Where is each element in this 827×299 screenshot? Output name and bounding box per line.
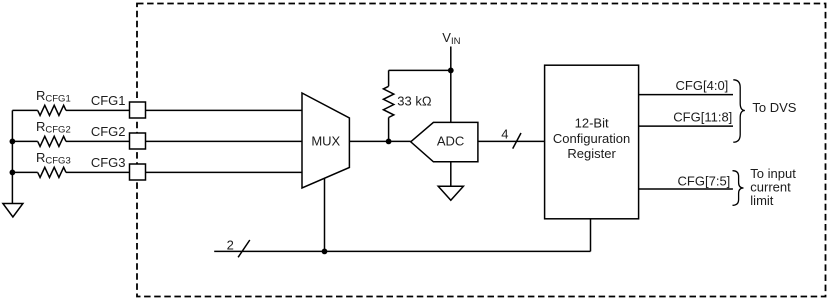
svg-text:MUX: MUX xyxy=(311,133,340,148)
svg-text:RCFG1: RCFG1 xyxy=(36,88,71,105)
svg-text:To DVS: To DVS xyxy=(752,100,796,115)
svg-text:CFG3: CFG3 xyxy=(91,155,126,170)
svg-text:ADC: ADC xyxy=(437,134,464,149)
svg-text:CFG[7:5]: CFG[7:5] xyxy=(678,173,731,188)
svg-text:Configuration: Configuration xyxy=(553,131,630,146)
svg-text:Register: Register xyxy=(567,146,616,161)
svg-text:VIN: VIN xyxy=(442,30,460,47)
svg-text:CFG1: CFG1 xyxy=(91,93,126,108)
svg-text:RCFG2: RCFG2 xyxy=(36,119,71,136)
svg-text:CFG[11:8]: CFG[11:8] xyxy=(673,109,732,124)
svg-text:CFG[4:0]: CFG[4:0] xyxy=(676,78,729,93)
svg-text:12-Bit: 12-Bit xyxy=(575,116,609,131)
svg-text:2: 2 xyxy=(227,238,234,253)
svg-text:RCFG3: RCFG3 xyxy=(36,150,71,167)
svg-text:33 kΩ: 33 kΩ xyxy=(397,94,432,109)
svg-text:4: 4 xyxy=(501,127,508,142)
svg-text:CFG2: CFG2 xyxy=(91,124,126,139)
svg-text:limit: limit xyxy=(750,193,773,208)
